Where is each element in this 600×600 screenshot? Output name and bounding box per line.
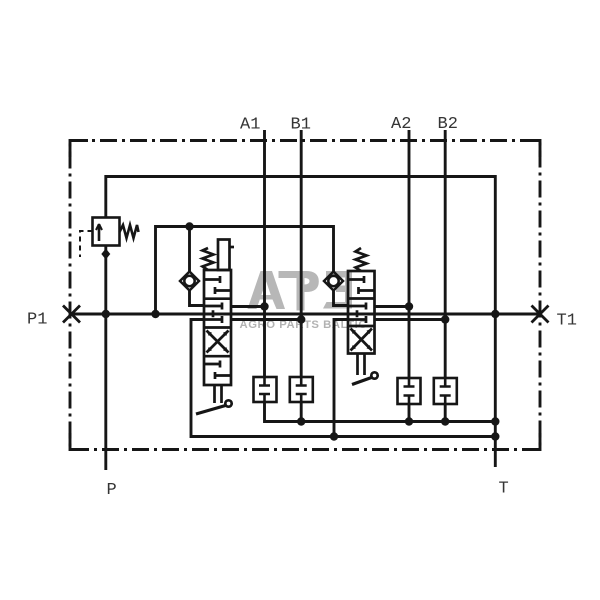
spring bbox=[120, 225, 139, 238]
shock box 2 (B1) bbox=[290, 377, 313, 402]
stem bbox=[358, 354, 365, 376]
A2 line bbox=[408, 130, 411, 378]
stem bbox=[215, 385, 222, 403]
letter A bbox=[248, 271, 286, 309]
valve2 to B2 bbox=[375, 318, 446, 321]
pilot dashed bbox=[80, 231, 93, 257]
main carry-over line P1-T1 bbox=[70, 313, 540, 316]
section3 X bbox=[207, 331, 229, 353]
shock box 4 (B2) bbox=[434, 378, 457, 404]
valve2 to A2 bbox=[375, 305, 410, 308]
check valve 2 bbox=[324, 272, 343, 291]
collector line of shock boxes bbox=[265, 402, 496, 422]
B2 line bbox=[444, 130, 447, 378]
section2 marks bbox=[204, 303, 222, 310]
letter P bbox=[279, 271, 319, 292]
inner top line: relief top to T riser bbox=[106, 177, 496, 468]
svg-text:B1: B1 bbox=[291, 116, 311, 135]
check1 outlet into valve1 bbox=[190, 291, 205, 306]
enclosure dash-dot border bbox=[70, 141, 540, 450]
solid corner Ls of border bbox=[70, 141, 88, 158]
port T1 symbol bbox=[532, 306, 549, 323]
B1 line bbox=[300, 130, 303, 377]
spool valve 1 bbox=[196, 240, 234, 415]
valve1 to A1 bbox=[231, 305, 265, 308]
relief valve RV bbox=[80, 218, 139, 258]
spring top bbox=[356, 248, 367, 271]
feed line to check valves bbox=[156, 227, 334, 315]
port P1 symbol bbox=[63, 306, 80, 323]
svg-text:T: T bbox=[499, 480, 509, 499]
svg-text:A1: A1 bbox=[240, 116, 260, 135]
watermark APB logo bbox=[248, 271, 353, 311]
check1 branch bbox=[188, 227, 191, 272]
junction dots bbox=[101, 222, 499, 440]
spring top bbox=[203, 248, 214, 270]
svg-text:P: P bbox=[107, 481, 117, 500]
valve1 to B1 bbox=[231, 318, 301, 321]
svg-text:T1: T1 bbox=[557, 312, 577, 331]
letter B (mirrored E style) bbox=[326, 271, 352, 309]
valve2 drain bbox=[334, 320, 348, 437]
P riser bbox=[104, 246, 107, 471]
spool valve 2 bbox=[348, 248, 378, 385]
section4 marks bbox=[204, 361, 220, 368]
section1 marks bbox=[204, 276, 220, 283]
valve1 drain down and across bbox=[191, 320, 495, 437]
A1 line bbox=[263, 130, 266, 377]
shock box 1 (A1) bbox=[254, 377, 277, 402]
section3 X bbox=[351, 329, 373, 351]
section2 marks bbox=[348, 303, 366, 310]
plunger bbox=[218, 240, 230, 271]
svg-text:A2: A2 bbox=[391, 115, 411, 134]
check valve 1 bbox=[180, 272, 199, 291]
shock box 3 (A2) bbox=[398, 378, 421, 404]
svg-text:P1: P1 bbox=[27, 311, 47, 330]
svg-text:B2: B2 bbox=[438, 115, 458, 134]
section1 marks bbox=[348, 276, 364, 283]
check2 outlet into valve2 bbox=[334, 291, 349, 306]
